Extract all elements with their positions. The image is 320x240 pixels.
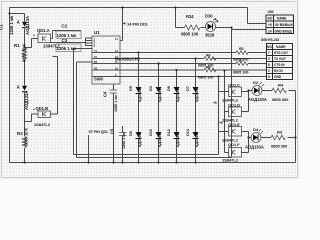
optocoupler QD1.D bbox=[222, 103, 242, 123]
wire rail RTS row bbox=[93, 52, 267, 54]
diode D14 bbox=[186, 128, 199, 147]
connector U62 table bbox=[266, 15, 294, 34]
svg-text:R3: R3 bbox=[277, 130, 283, 135]
svg-text:D7: D7 bbox=[186, 86, 190, 91]
svg-text:14: 14 bbox=[268, 30, 272, 34]
svg-text:QD1.C: QD1.C bbox=[228, 83, 240, 88]
diode D16 bbox=[149, 129, 162, 147]
svg-text:QD1.E: QD1.E bbox=[228, 122, 240, 127]
svg-text:D5: D5 bbox=[129, 86, 133, 91]
svg-text:КД1401: КД1401 bbox=[176, 89, 180, 102]
svg-text:R24: R24 bbox=[186, 14, 194, 19]
svg-text:КД1401: КД1401 bbox=[138, 134, 142, 147]
svg-text:R1: R1 bbox=[14, 43, 20, 48]
svg-text:5: 5 bbox=[268, 75, 270, 79]
diode D5 bbox=[129, 86, 142, 102]
svg-text:1206 1 мк: 1206 1 мк bbox=[122, 132, 126, 149]
wire jog top-left bbox=[10, 13, 25, 15]
connector DB9 RS-232 table bbox=[267, 44, 293, 80]
resistor R3 bbox=[271, 130, 288, 149]
capacitor C2 bbox=[56, 24, 81, 39]
svg-text:NAME: NAME bbox=[276, 45, 286, 49]
svg-text:1206 1 мк: 1206 1 мк bbox=[57, 46, 77, 51]
svg-text:0805 10 К: 0805 10 К bbox=[24, 127, 29, 146]
svg-text:0805 100: 0805 100 bbox=[233, 71, 248, 75]
svg-text:TX OUT: TX OUT bbox=[274, 57, 286, 61]
svg-text:C2: C2 bbox=[62, 24, 68, 29]
LED D2 bbox=[248, 80, 267, 102]
wire vertical to bus1 right bbox=[218, 77, 220, 155]
wire LED row1 bbox=[249, 90, 296, 92]
svg-text:NAME: NAME bbox=[277, 17, 287, 21]
wire ST PIN stub bbox=[88, 136, 90, 163]
resistor R6 bbox=[198, 54, 216, 68]
wire diode column 4 bbox=[195, 59, 197, 163]
sheet border frame bbox=[2, 2, 298, 178]
node ST PIN label bbox=[89, 130, 109, 137]
wire opto right stubs bbox=[242, 91, 249, 153]
wire GND from table1 bbox=[232, 28, 267, 158]
node +5 labels bbox=[213, 101, 223, 125]
svg-text:D14: D14 bbox=[186, 128, 190, 136]
wire C5 leg bbox=[122, 126, 124, 163]
svg-text:MAX802CPE: MAX802CPE bbox=[115, 57, 140, 62]
svg-text:Д: Д bbox=[17, 85, 20, 89]
svg-text:2: 2 bbox=[268, 69, 270, 73]
svg-text:QD1.F: QD1.F bbox=[228, 142, 240, 147]
wire bottom bus GND2 bbox=[77, 157, 232, 159]
wire left drop 2 to bus2 bbox=[77, 62, 93, 158]
svg-text:U1: U1 bbox=[94, 30, 100, 35]
svg-text:C3: C3 bbox=[62, 38, 68, 43]
wire diode column 3 bbox=[176, 70, 178, 163]
svg-text:C4: C4 bbox=[103, 91, 108, 97]
wire top rail bbox=[10, 7, 248, 9]
svg-text:АОД133А: АОД133А bbox=[24, 91, 29, 110]
svg-text:R2: R2 bbox=[17, 131, 23, 136]
resistor R1 bbox=[14, 43, 27, 62]
svg-text:D2: D2 bbox=[253, 80, 259, 85]
svg-text:R8: R8 bbox=[206, 66, 211, 70]
svg-text:DB9 RS-232: DB9 RS-232 bbox=[261, 38, 279, 42]
svg-text:3: 3 bbox=[268, 57, 270, 61]
svg-text:АОД113А: АОД113А bbox=[25, 16, 30, 35]
svg-text:R5: R5 bbox=[239, 47, 244, 51]
svg-text:+5: +5 bbox=[268, 23, 272, 27]
optocoupler QD1.C bbox=[222, 83, 242, 103]
capacitor C3 bbox=[56, 38, 81, 52]
wire QD1.B pins bbox=[25, 114, 58, 122]
svg-text:NO: NO bbox=[268, 17, 273, 21]
wire U1 left pin stubs bbox=[86, 38, 93, 46]
svg-text:5V ВХ/ВЫХ: 5V ВХ/ВЫХ bbox=[275, 23, 294, 27]
svg-text:7: 7 bbox=[268, 51, 270, 55]
svg-text:QD1.A: QD1.A bbox=[37, 28, 50, 33]
resistor R7 bbox=[233, 59, 248, 75]
svg-text:U62: U62 bbox=[268, 10, 274, 14]
wire left drop 1 to bus1 bbox=[74, 49, 93, 155]
svg-text:КД1401: КД1401 bbox=[176, 134, 180, 147]
diode D6 bbox=[129, 131, 142, 147]
svg-text:8: 8 bbox=[268, 63, 270, 67]
svg-text:D3: D3 bbox=[149, 86, 153, 91]
wire 5V from top to table1 bbox=[248, 8, 267, 24]
wire node B (between C2 C3) bbox=[51, 43, 86, 46]
LED D4 bbox=[245, 127, 264, 150]
svg-text:R6: R6 bbox=[206, 54, 211, 58]
svg-text:3528: 3528 bbox=[205, 33, 215, 38]
wire rail GND row bbox=[93, 76, 267, 78]
svg-text:14: 14 bbox=[115, 37, 118, 41]
svg-text:D4: D4 bbox=[253, 127, 259, 132]
svg-text:КД1401: КД1401 bbox=[138, 89, 142, 102]
svg-text:0805 300: 0805 300 bbox=[272, 97, 289, 102]
svg-text:CTS IN: CTS IN bbox=[274, 63, 285, 67]
resistor R4 bbox=[272, 83, 289, 103]
capacitor C4 bbox=[103, 90, 119, 112]
wire right rail bbox=[295, 91, 297, 163]
svg-text:0805 10 К: 0805 10 К bbox=[22, 43, 27, 62]
wire opto left stubs bbox=[219, 92, 229, 153]
svg-text:КД1401: КД1401 bbox=[158, 89, 162, 102]
svg-text:Д: Д bbox=[17, 20, 20, 24]
U1 package note 14 PIN bbox=[123, 22, 149, 27]
svg-text:1S847L2: 1S847L2 bbox=[34, 122, 51, 127]
wire QD1.A right pin bbox=[51, 31, 53, 39]
resistor R8 bbox=[198, 66, 216, 80]
svg-text:1206 1 мк: 1206 1 мк bbox=[9, 15, 14, 35]
svg-text:C5: C5 bbox=[110, 128, 115, 134]
svg-text:R7: R7 bbox=[239, 59, 244, 63]
wire rail TX row bbox=[93, 58, 267, 60]
wire LED D30 branch bbox=[176, 8, 232, 28]
LED D30 bbox=[205, 14, 219, 38]
diode D8 bbox=[167, 86, 180, 102]
wire bottom bus GND1 bbox=[74, 154, 219, 156]
wire C4 leg bbox=[113, 85, 115, 163]
svg-text:АОД133А: АОД133А bbox=[245, 145, 264, 150]
svg-text:+: + bbox=[33, 108, 35, 112]
diode D12 bbox=[167, 129, 180, 147]
svg-text:RX IN: RX IN bbox=[274, 69, 283, 73]
diode D1 bbox=[17, 20, 27, 28]
svg-text:14 PIN DD1: 14 PIN DD1 bbox=[127, 22, 149, 27]
svg-text:АОД133А: АОД133А bbox=[248, 97, 267, 102]
svg-text:D6: D6 bbox=[129, 131, 133, 136]
svg-text:4: 4 bbox=[94, 44, 96, 48]
wire vertical opto commons bbox=[224, 71, 226, 153]
wire rail CTS row bbox=[93, 63, 267, 65]
svg-text:КД1401: КД1401 bbox=[158, 134, 162, 147]
capacitor C5 bbox=[110, 128, 127, 149]
optocoupler QD1.B bbox=[33, 106, 51, 127]
wire QD1.A left pin bbox=[25, 39, 39, 48]
diode D9 bbox=[17, 85, 27, 92]
svg-text:+: + bbox=[33, 34, 35, 38]
svg-text:1206 1 мк: 1206 1 мк bbox=[114, 95, 118, 112]
svg-text:RTS OUT: RTS OUT bbox=[274, 51, 288, 55]
svg-text:GND: GND bbox=[274, 75, 282, 79]
capacitor C1 value text bbox=[0, 15, 14, 35]
svg-text:NO: NO bbox=[267, 45, 272, 49]
svg-text:D8: D8 bbox=[167, 86, 171, 91]
svg-text:1S847L2: 1S847L2 bbox=[222, 158, 239, 163]
svg-text:C1: C1 bbox=[0, 24, 4, 30]
wire node C (below C3) bbox=[53, 57, 58, 115]
svg-text:SW0: SW0 bbox=[94, 77, 104, 82]
wire diode column 1 bbox=[138, 53, 140, 163]
svg-text:КД1401: КД1401 bbox=[195, 89, 199, 102]
op-amp U1 (supervisor IC) bbox=[92, 30, 140, 84]
svg-text:+5: +5 bbox=[219, 121, 223, 125]
wire left rail bbox=[9, 8, 11, 163]
wire left column segments bbox=[24, 14, 26, 163]
resistor R24 bbox=[181, 14, 200, 37]
wire U1 VCC pin to top bbox=[121, 8, 123, 41]
svg-text:ST PIN QD1: ST PIN QD1 bbox=[89, 130, 109, 134]
wire bottom bus GND3 bbox=[10, 162, 296, 164]
svg-text:КД1401: КД1401 bbox=[195, 134, 199, 147]
optocoupler QD1.F bbox=[222, 142, 242, 163]
diode D3 bbox=[149, 86, 162, 102]
wire node A (C2 top) bbox=[53, 30, 82, 32]
svg-text:R4: R4 bbox=[278, 83, 284, 88]
resistor R5 bbox=[233, 47, 248, 62]
svg-text:GND ВХОД: GND ВХОД bbox=[275, 30, 293, 34]
svg-text:D12: D12 bbox=[167, 129, 171, 136]
optocoupler QD1.A bbox=[33, 28, 60, 49]
svg-text:D30: D30 bbox=[205, 14, 213, 19]
svg-text:0805 10К: 0805 10К bbox=[181, 32, 199, 37]
svg-text:QD1.B: QD1.B bbox=[36, 106, 49, 111]
svg-text:0805 300: 0805 300 bbox=[271, 144, 288, 149]
svg-text:QD1.D: QD1.D bbox=[228, 103, 240, 108]
wire diode column 2 bbox=[158, 64, 160, 163]
optocoupler QD1.E bbox=[222, 122, 242, 143]
svg-text:0805 100: 0805 100 bbox=[198, 76, 213, 80]
resistor R2 bbox=[17, 127, 29, 148]
wire LED row2 bbox=[249, 137, 296, 139]
svg-text:+5: +5 bbox=[213, 101, 217, 105]
svg-text:D16: D16 bbox=[149, 129, 153, 136]
wire rail RX row bbox=[93, 69, 267, 71]
diode D7 bbox=[186, 86, 199, 102]
